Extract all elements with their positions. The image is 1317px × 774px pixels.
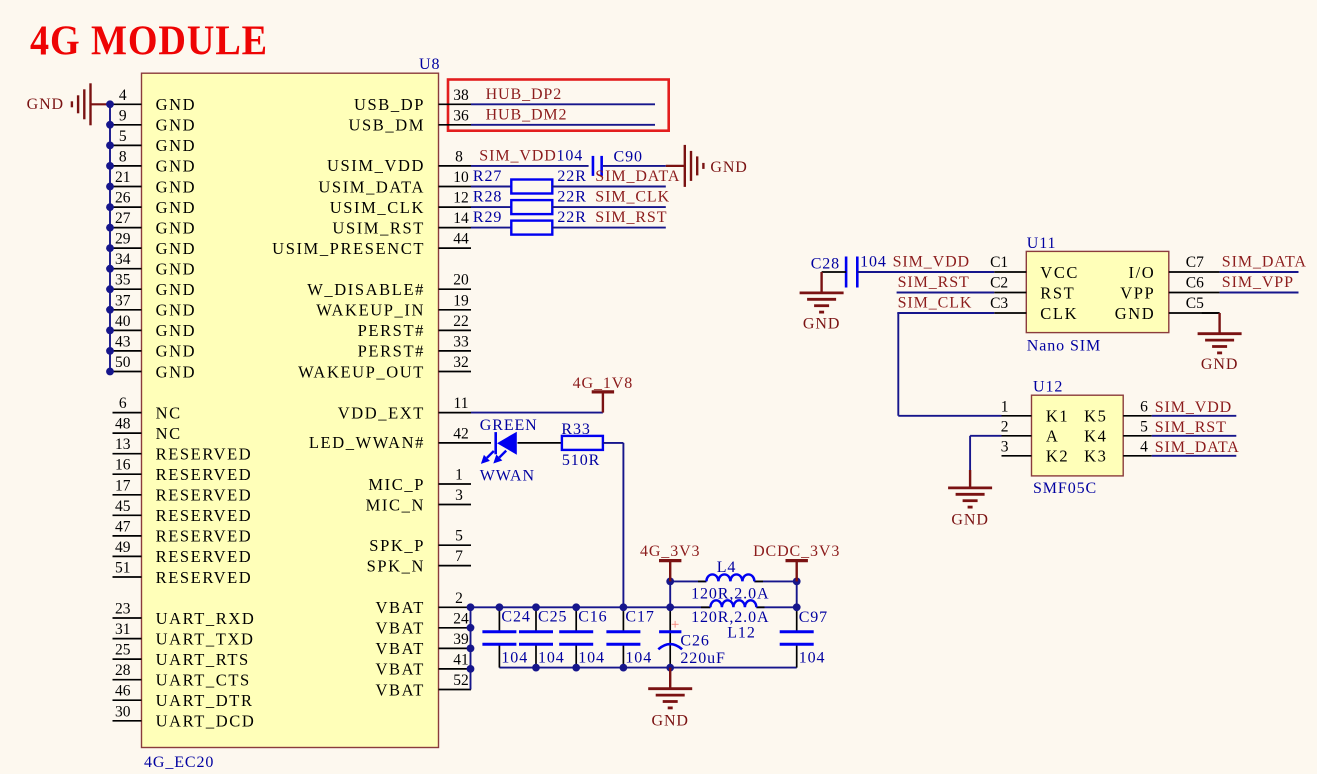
- wire net SIM_VDD to U11 C1: [857, 254, 994, 273]
- op-amp U8 4G_EC20 module body: [142, 56, 441, 771]
- svg-text:GND: GND: [156, 342, 197, 361]
- svg-text:SIM_VPP: SIM_VPP: [1222, 274, 1294, 291]
- svg-text:SIM_RST: SIM_RST: [898, 274, 970, 291]
- svg-text:GND: GND: [156, 218, 197, 237]
- svg-text:HUB_DP2: HUB_DP2: [486, 86, 563, 103]
- svg-text:17: 17: [115, 477, 131, 494]
- capacitor C17 104: [606, 603, 654, 671]
- svg-text:11: 11: [454, 395, 469, 412]
- capacitor C90 104: [593, 148, 666, 176]
- svg-text:32: 32: [453, 354, 469, 371]
- resistor R29 22R on U8 pin 14 / net SIM_RST: [332, 209, 667, 237]
- U8 pin 37 GND: [106, 292, 196, 319]
- svg-text:19: 19: [453, 292, 469, 309]
- svg-text:VPP: VPP: [1120, 283, 1155, 302]
- svg-text:48: 48: [115, 416, 131, 433]
- svg-text:C26: C26: [680, 632, 709, 649]
- U8 pin 46 UART_DTR: [113, 683, 254, 710]
- svg-text:C6: C6: [1186, 275, 1204, 292]
- svg-text:GND: GND: [156, 177, 197, 196]
- svg-text:104: 104: [538, 650, 565, 667]
- svg-text:USB_DM: USB_DM: [348, 116, 425, 135]
- wire U12 pin 2 to ground: [970, 436, 1001, 470]
- U8 pin 8 GND: [106, 148, 196, 175]
- svg-text:21: 21: [115, 169, 131, 186]
- svg-text:13: 13: [115, 436, 131, 453]
- svg-text:C3: C3: [990, 295, 1008, 312]
- svg-text:30: 30: [115, 703, 131, 720]
- wire VBAT rail: [471, 606, 797, 608]
- U8 pin 52 VBAT: [376, 672, 472, 699]
- svg-text:50: 50: [115, 354, 131, 371]
- svg-text:SIM_DATA: SIM_DATA: [1222, 254, 1307, 271]
- U8 pin 7 SPK_N: [367, 548, 471, 575]
- svg-text:RST: RST: [1040, 283, 1075, 302]
- U12 pin 2 A: [1001, 418, 1060, 445]
- svg-text:UART_CTS: UART_CTS: [156, 671, 251, 690]
- U12 pin 5 K4 / net SIM_RST: [1084, 418, 1236, 445]
- wire net SIM_CLK to U11 C3 and down to U12: [897, 295, 1001, 416]
- inductor L4 120R,2.0A: [691, 559, 769, 603]
- svg-text:4G_3V3: 4G_3V3: [640, 543, 701, 560]
- svg-text:52: 52: [453, 672, 469, 689]
- svg-text:14: 14: [453, 210, 469, 227]
- svg-text:38: 38: [453, 87, 469, 104]
- svg-text:40: 40: [115, 313, 131, 330]
- power DCDC_3V3: [753, 543, 840, 581]
- U8 pin 39 VBAT: [376, 631, 472, 658]
- svg-text:24: 24: [453, 610, 469, 627]
- svg-text:35: 35: [115, 272, 131, 289]
- svg-text:C5: C5: [1186, 295, 1204, 312]
- svg-text:R33: R33: [561, 421, 590, 438]
- svg-text:VBAT: VBAT: [376, 660, 426, 679]
- svg-text:22R: 22R: [557, 168, 586, 185]
- transistor U12 SMF05C ESD array: [1032, 379, 1124, 498]
- U8 pin 21 GND: [106, 169, 196, 196]
- svg-text:5: 5: [1140, 418, 1148, 435]
- svg-text:NC: NC: [156, 403, 182, 422]
- svg-text:PERST#: PERST#: [358, 321, 425, 340]
- svg-text:4G_EC20: 4G_EC20: [144, 754, 214, 771]
- svg-text:4G_1V8: 4G_1V8: [573, 375, 634, 392]
- svg-text:SIM_DATA: SIM_DATA: [1155, 439, 1240, 456]
- svg-text:46: 46: [115, 683, 131, 700]
- U8 pin 17 RESERVED: [113, 477, 253, 504]
- capacitor C26 220uF polarized: [658, 603, 726, 671]
- svg-text:UART_DCD: UART_DCD: [156, 712, 256, 731]
- op-amp U11 Nano SIM: [1026, 235, 1169, 355]
- svg-text:1: 1: [455, 467, 463, 484]
- svg-text:104: 104: [578, 650, 605, 667]
- U8 pin 23 UART_RXD: [113, 601, 256, 628]
- resistor R33 510R: [518, 421, 603, 469]
- svg-text:VDD_EXT: VDD_EXT: [338, 403, 425, 422]
- node USB highlight red box: [448, 80, 669, 131]
- svg-text:SPK_P: SPK_P: [369, 536, 425, 555]
- svg-text:UART_RTS: UART_RTS: [156, 650, 250, 669]
- U8 pin 27 GND: [106, 210, 196, 237]
- svg-text:43: 43: [115, 333, 131, 350]
- U8 pin 6 NC: [113, 395, 182, 422]
- svg-text:K3: K3: [1084, 447, 1107, 466]
- svg-text:C16: C16: [578, 609, 607, 626]
- net SIM_VPP at U11: [1220, 274, 1299, 293]
- svg-text:C25: C25: [538, 609, 567, 626]
- svg-text:37: 37: [115, 292, 131, 309]
- svg-text:GND: GND: [27, 96, 64, 113]
- U8 pin 35 GND: [106, 272, 196, 299]
- svg-text:SIM_CLK: SIM_CLK: [595, 189, 670, 206]
- U8 pin 51 RESERVED: [113, 560, 253, 587]
- wire cap bank bottom rail: [499, 667, 796, 669]
- svg-text:U11: U11: [1027, 235, 1057, 252]
- svg-text:510R: 510R: [562, 452, 600, 469]
- svg-text:104: 104: [501, 650, 528, 667]
- svg-text:GND: GND: [156, 116, 197, 135]
- svg-text:A: A: [1046, 427, 1060, 446]
- U11 pin C1 VCC: [990, 254, 1079, 282]
- ground GND below U12: [948, 470, 992, 529]
- U8 pin 11 VDD_EXT / wire to 4G_1V8: [338, 395, 603, 422]
- svg-text:GND: GND: [710, 159, 747, 176]
- svg-text:RESERVED: RESERVED: [156, 445, 253, 464]
- svg-text:GND: GND: [156, 95, 197, 114]
- svg-text:104: 104: [799, 650, 826, 667]
- svg-text:GND: GND: [1201, 356, 1238, 373]
- svg-text:USIM_VDD: USIM_VDD: [327, 156, 425, 175]
- U8 pin 44 USIM_PRESENCT: [272, 231, 471, 258]
- svg-text:DCDC_3V3: DCDC_3V3: [753, 543, 840, 560]
- svg-text:PERST#: PERST#: [358, 342, 425, 361]
- U8 pin 1 MIC_P: [368, 467, 471, 494]
- U8 pin 2 VBAT: [376, 590, 472, 617]
- svg-text:6: 6: [119, 395, 127, 412]
- U8 pin 5 SPK_P: [369, 528, 471, 555]
- svg-text:34: 34: [115, 251, 131, 268]
- svg-text:I/O: I/O: [1129, 263, 1156, 282]
- svg-text:GND: GND: [156, 157, 197, 176]
- svg-text:104: 104: [625, 650, 652, 667]
- svg-text:R27: R27: [473, 168, 502, 185]
- U11 pin C2 RST: [990, 275, 1075, 303]
- U11 pin C3 CLK: [990, 295, 1078, 323]
- U8 pin 34 GND: [106, 251, 196, 278]
- svg-text:RESERVED: RESERVED: [156, 465, 253, 484]
- svg-text:26: 26: [115, 190, 131, 207]
- capacitor C24 104: [482, 603, 530, 667]
- svg-text:USB_DP: USB_DP: [354, 95, 425, 114]
- svg-text:1: 1: [1001, 398, 1009, 415]
- svg-text:25: 25: [115, 642, 131, 659]
- svg-text:5: 5: [119, 128, 127, 145]
- power 4G_3V3: [640, 543, 701, 581]
- svg-text:51: 51: [115, 560, 131, 577]
- U8 pin 31 UART_TXD: [113, 621, 255, 648]
- svg-text:36: 36: [453, 107, 469, 124]
- svg-text:RESERVED: RESERVED: [156, 547, 253, 566]
- svg-text:C17: C17: [625, 609, 654, 626]
- U8 pin 28 UART_CTS: [113, 662, 251, 689]
- svg-text:104: 104: [557, 147, 584, 164]
- U8 pin 13 RESERVED: [113, 436, 253, 463]
- U8 pin 32 WAKEUP_OUT: [298, 354, 471, 381]
- U8 pin 20 W_DISABLE#: [307, 272, 471, 299]
- capacitor C25 104: [519, 603, 567, 671]
- svg-text:3: 3: [1001, 438, 1009, 455]
- svg-text:Nano SIM: Nano SIM: [1027, 338, 1101, 355]
- svg-text:GND: GND: [156, 362, 197, 381]
- U8 pin 48 NC: [113, 416, 182, 443]
- U8 pin 49 RESERVED: [113, 539, 253, 566]
- svg-text:WAKEUP_OUT: WAKEUP_OUT: [298, 362, 425, 381]
- svg-text:C97: C97: [799, 609, 828, 626]
- svg-text:U12: U12: [1033, 379, 1063, 396]
- svg-text:SIM_CLK: SIM_CLK: [898, 295, 973, 312]
- svg-text:29: 29: [115, 231, 131, 248]
- U8 pin 30 UART_DCD: [113, 703, 256, 730]
- svg-text:47: 47: [115, 518, 131, 535]
- capacitor C28 104: [811, 254, 887, 288]
- svg-text:4G MODULE: 4G MODULE: [30, 19, 268, 65]
- U8 pin 45 RESERVED: [113, 498, 253, 525]
- svg-text:C1: C1: [990, 254, 1008, 271]
- svg-text:MIC_N: MIC_N: [366, 495, 425, 514]
- svg-text:GND: GND: [156, 136, 197, 155]
- svg-text:SIM_DATA: SIM_DATA: [595, 168, 680, 185]
- svg-text:220uF: 220uF: [680, 650, 725, 667]
- U8 pin 43 GND: [106, 333, 196, 360]
- svg-text:45: 45: [115, 498, 131, 515]
- svg-text:GND: GND: [156, 198, 197, 217]
- svg-text:GND: GND: [652, 713, 689, 730]
- U8 pin 3 MIC_N: [366, 487, 471, 514]
- inductor L12 120R,2.0A: [691, 600, 769, 641]
- svg-text:SIM_VDD: SIM_VDD: [479, 147, 556, 164]
- svg-text:USIM_RST: USIM_RST: [332, 218, 425, 237]
- svg-text:31: 31: [115, 621, 131, 638]
- U8 pin 26 GND: [106, 190, 196, 217]
- svg-text:7: 7: [455, 548, 463, 565]
- svg-text:39: 39: [453, 631, 469, 648]
- wire 3V3 top rail: [666, 578, 800, 612]
- svg-text:6: 6: [1140, 398, 1148, 415]
- svg-text:L12: L12: [727, 625, 755, 642]
- svg-text:28: 28: [115, 662, 131, 679]
- svg-text:120R,2.0A: 120R,2.0A: [691, 609, 769, 626]
- ground GND below C28: [800, 272, 844, 333]
- svg-text:SIM_RST: SIM_RST: [1155, 419, 1227, 436]
- svg-text:22R: 22R: [557, 209, 586, 226]
- svg-text:22: 22: [453, 313, 469, 330]
- svg-text:GND: GND: [951, 512, 988, 529]
- U8 pin 25 UART_RTS: [113, 642, 250, 669]
- svg-text:GREEN: GREEN: [480, 417, 538, 434]
- svg-text:16: 16: [115, 457, 131, 474]
- svg-text:C90: C90: [614, 148, 643, 165]
- svg-text:9: 9: [119, 107, 127, 124]
- svg-text:GND: GND: [803, 316, 840, 333]
- svg-text:VCC: VCC: [1040, 263, 1079, 282]
- svg-text:4: 4: [119, 87, 127, 104]
- svg-text:VBAT: VBAT: [376, 639, 426, 658]
- svg-text:HUB_DM2: HUB_DM2: [486, 106, 568, 123]
- svg-text:MIC_P: MIC_P: [368, 475, 425, 494]
- svg-text:K4: K4: [1084, 427, 1107, 446]
- title 4G MODULE: [30, 19, 268, 65]
- ground GND right of C90: [666, 145, 748, 187]
- svg-text:22R: 22R: [557, 189, 586, 206]
- svg-text:VBAT: VBAT: [376, 619, 426, 638]
- svg-text:L4: L4: [717, 559, 737, 576]
- svg-text:LED_WWAN#: LED_WWAN#: [309, 433, 425, 452]
- ground GND symbol top-left: [27, 83, 110, 125]
- svg-text:U8: U8: [419, 56, 440, 73]
- svg-text:K2: K2: [1046, 447, 1069, 466]
- U8 pin 8 USIM_VDD / net SIM_VDD: [327, 147, 589, 175]
- svg-text:GND: GND: [156, 280, 197, 299]
- U8 pin 42 LED_WWAN#: [309, 425, 491, 452]
- svg-text:3: 3: [455, 487, 463, 504]
- U8 pin 41 VBAT: [376, 651, 472, 678]
- svg-text:C24: C24: [501, 609, 530, 626]
- U8 pin 50 GND: [106, 354, 196, 381]
- ground GND at U11 pin C5: [1198, 313, 1242, 373]
- svg-text:23: 23: [115, 601, 131, 618]
- U8 pin 4 GND: [106, 87, 196, 114]
- svg-text:R29: R29: [473, 209, 502, 226]
- svg-text:K5: K5: [1084, 407, 1107, 426]
- svg-text:SIM_RST: SIM_RST: [595, 209, 667, 226]
- resistor R27 22R on U8 pin 10 / net SIM_DATA: [318, 168, 680, 196]
- svg-text:USIM_DATA: USIM_DATA: [318, 177, 425, 196]
- svg-text:GND: GND: [156, 321, 197, 340]
- svg-text:C2: C2: [990, 275, 1008, 292]
- svg-text:GND: GND: [156, 301, 197, 320]
- capacitor C16 104: [559, 603, 607, 671]
- svg-text:SPK_N: SPK_N: [367, 556, 425, 575]
- svg-text:C28: C28: [811, 256, 840, 273]
- svg-text:USIM_CLK: USIM_CLK: [330, 198, 425, 217]
- svg-text:NC: NC: [156, 424, 182, 443]
- U11 pin C6 VPP: [1120, 275, 1219, 303]
- svg-text:UART_RXD: UART_RXD: [156, 609, 256, 628]
- U8 pin 5 GND: [106, 128, 196, 155]
- svg-text:4: 4: [1140, 438, 1148, 455]
- svg-text:W_DISABLE#: W_DISABLE#: [307, 280, 425, 299]
- wire net SIM_RST to U11 C2: [897, 274, 995, 293]
- svg-text:C7: C7: [1186, 254, 1204, 271]
- U8 pin 19 WAKEUP_IN: [316, 292, 471, 319]
- svg-text:+: +: [671, 617, 679, 633]
- svg-text:GND: GND: [156, 239, 197, 258]
- svg-text:2: 2: [455, 590, 463, 607]
- U8 pin 36 USB_DM / net HUB_DM2: [348, 106, 655, 134]
- svg-text:8: 8: [455, 148, 463, 165]
- svg-text:49: 49: [115, 539, 131, 556]
- svg-text:33: 33: [453, 333, 469, 350]
- svg-text:R28: R28: [473, 189, 502, 206]
- wire GND bus vertical left of U8: [109, 104, 111, 371]
- power 4G_1V8: [573, 375, 634, 413]
- svg-text:44: 44: [453, 231, 469, 248]
- svg-text:GND: GND: [1115, 304, 1156, 323]
- wire VBAT vertical tie: [467, 603, 475, 689]
- U8 pin 16 RESERVED: [113, 457, 253, 484]
- resistor R28 22R on U8 pin 12 / net SIM_CLK: [330, 189, 670, 217]
- U8 pin 33 PERST#: [358, 333, 471, 360]
- U12 pin 1 K1: [1001, 398, 1070, 425]
- svg-text:SIM_VDD: SIM_VDD: [1155, 399, 1232, 416]
- wire R33 to VBAT rail: [603, 443, 624, 607]
- U8 pin 24 VBAT: [376, 610, 472, 637]
- ground GND below C26: [648, 668, 692, 730]
- LED GREEN WWAN: [480, 417, 538, 485]
- svg-text:42: 42: [453, 425, 469, 442]
- U12 pin 6 K5 / net SIM_VDD: [1084, 398, 1236, 425]
- svg-text:2: 2: [1001, 418, 1009, 435]
- svg-text:104: 104: [860, 254, 887, 271]
- svg-text:UART_DTR: UART_DTR: [156, 691, 254, 710]
- svg-text:20: 20: [453, 272, 469, 289]
- svg-text:12: 12: [453, 190, 469, 207]
- svg-text:K1: K1: [1046, 407, 1069, 426]
- svg-text:VBAT: VBAT: [376, 680, 426, 699]
- svg-text:UART_TXD: UART_TXD: [156, 629, 255, 648]
- svg-text:SMF05C: SMF05C: [1033, 480, 1097, 497]
- svg-text:10: 10: [453, 169, 469, 186]
- U8 pin 40 GND: [106, 313, 196, 340]
- svg-text:VBAT: VBAT: [376, 598, 426, 617]
- svg-text:GND: GND: [156, 260, 197, 279]
- U12 pin 3 K2: [1001, 438, 1070, 465]
- svg-text:5: 5: [455, 528, 463, 545]
- capacitor C97 104: [780, 607, 828, 667]
- svg-text:8: 8: [119, 148, 127, 165]
- svg-text:41: 41: [453, 651, 469, 668]
- svg-text:RESERVED: RESERVED: [156, 486, 253, 505]
- U8 pin 22 PERST#: [358, 313, 471, 340]
- U8 pin 38 USB_DP / net HUB_DP2: [354, 86, 655, 114]
- U11 pin C5 GND: [1115, 295, 1220, 323]
- U8 pin 9 GND: [106, 107, 196, 134]
- U8 pin 47 RESERVED: [113, 518, 253, 545]
- svg-text:USIM_PRESENCT: USIM_PRESENCT: [272, 239, 425, 258]
- svg-text:WAKEUP_IN: WAKEUP_IN: [316, 301, 425, 320]
- svg-text:27: 27: [115, 210, 131, 227]
- svg-text:RESERVED: RESERVED: [156, 506, 253, 525]
- svg-text:RESERVED: RESERVED: [156, 568, 253, 587]
- U12 pin 4 K3 / net SIM_DATA: [1084, 438, 1240, 465]
- svg-text:SIM_VDD: SIM_VDD: [893, 254, 970, 271]
- net SIM_DATA at U11: [1220, 254, 1307, 273]
- U8 pin 29 GND: [106, 231, 196, 258]
- svg-text:CLK: CLK: [1040, 304, 1078, 323]
- svg-text:WWAN: WWAN: [480, 468, 535, 485]
- U11 pin C7 I/O: [1129, 254, 1220, 282]
- svg-text:RESERVED: RESERVED: [156, 527, 253, 546]
